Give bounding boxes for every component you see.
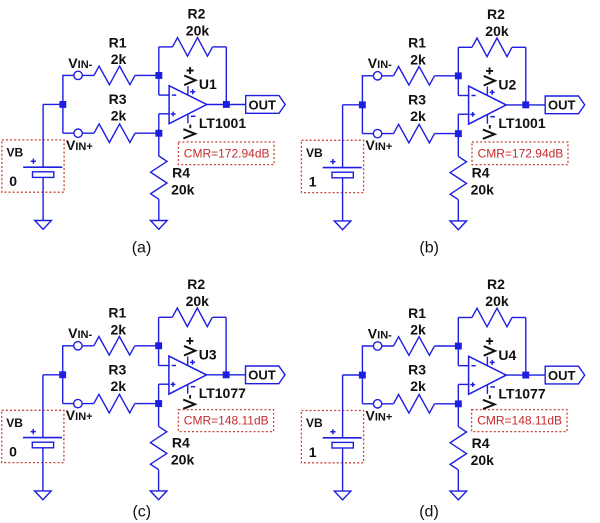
label R1 value 2k (U1): [109, 34, 127, 67]
svg-text:1: 1: [309, 444, 317, 460]
op-amp U2 V- pin label: [483, 125, 495, 139]
svg-text:VB: VB: [306, 146, 323, 160]
resistor R4 (U1): [151, 133, 167, 220]
wire: inverting node rail (U4): [457, 318, 459, 366]
wire: VIN- input top horizontal (U4): [362, 345, 393, 347]
label R3 value 2k (U4): [408, 362, 426, 395]
battery VB box (U2): [301, 140, 363, 192]
wire: feedback right vertical (U1): [225, 47, 227, 105]
wire: noninverting input stub (U2): [458, 113, 469, 115]
op-amp U4 noninverting input plus mark: [470, 382, 475, 387]
CMR result label (d): [472, 410, 567, 432]
resistor R3 (U3): [94, 394, 159, 413]
resistor R3 (U1): [94, 124, 159, 143]
svg-text:OUT: OUT: [548, 368, 576, 383]
svg-text:R2: R2: [188, 6, 206, 22]
wire: VIN- input top horizontal (U3): [63, 345, 94, 347]
wire: battery bottom (U3): [42, 448, 44, 491]
port VIN+ (U1): [74, 129, 82, 137]
junction: R3 / R4 node (U1): [155, 130, 162, 137]
wire: battery tap horizontal (U1): [43, 103, 63, 105]
junction: R3 / R4 node (U2): [455, 130, 462, 137]
ground: battery (U2): [334, 221, 351, 230]
ground: battery (U4): [334, 491, 351, 500]
resistor R2 feedback (U1): [159, 38, 227, 57]
svg-text:2k: 2k: [410, 378, 426, 394]
resistor R1 (U4): [394, 337, 459, 356]
op-amp U3 V+ power pin: [188, 357, 195, 366]
wire: VIN- input top horizontal (U2): [362, 75, 393, 77]
port VIN- (U3): [74, 342, 82, 350]
op-amp U1 V+ pin label: [184, 67, 195, 85]
label R1 value 2k (U4): [408, 305, 426, 338]
wire: feedback right vertical (U4): [525, 318, 527, 376]
battery VB symbol (U3): [23, 429, 62, 448]
wire: noninverting node rail (U4): [457, 384, 459, 403]
op-amp U1 V+ power pin: [188, 86, 195, 95]
op-amp U4 V- pin label: [483, 395, 495, 409]
output flag OUT (U3): [246, 366, 286, 384]
op-amp U2 V- power pin: [487, 114, 495, 124]
resistor R4 (U2): [450, 134, 466, 221]
svg-text:R1: R1: [109, 34, 127, 50]
svg-text:20k: 20k: [186, 23, 210, 39]
op-amp U4 V- power pin: [487, 384, 495, 394]
svg-text:2k: 2k: [410, 108, 426, 124]
junction: left rail / battery tap (U4): [359, 372, 366, 379]
resistor R1 (U1): [94, 66, 159, 85]
svg-text:U1: U1: [199, 76, 217, 92]
op-amp U1 inverting input minus mark: [172, 94, 176, 96]
junction: output node (U3): [223, 371, 230, 378]
svg-text:U2: U2: [498, 77, 516, 93]
port VIN- (U4): [373, 342, 381, 350]
battery VB symbol (U2): [323, 159, 362, 178]
svg-text:(d): (d): [419, 504, 439, 521]
svg-text:OUT: OUT: [548, 98, 576, 113]
svg-text:R1: R1: [408, 305, 426, 321]
label R1 value 2k (U2): [408, 35, 426, 68]
svg-text:R4: R4: [172, 435, 190, 451]
op-amp U1 triangle: [169, 86, 207, 124]
svg-text:R1: R1: [408, 35, 426, 51]
battery VB symbol (U1): [23, 159, 62, 178]
label R3 value 2k (U3): [108, 361, 126, 394]
label R2 value 20k (U3): [186, 276, 210, 309]
svg-text:LT1001: LT1001: [199, 115, 246, 131]
svg-text:CMR=172.94dB: CMR=172.94dB: [184, 146, 270, 160]
svg-text:U3: U3: [199, 347, 217, 363]
svg-text:R2: R2: [487, 6, 505, 22]
svg-text:VIN-: VIN-: [68, 55, 92, 71]
output flag OUT (U2): [545, 96, 585, 114]
svg-text:R3: R3: [109, 91, 127, 107]
resistor R2 feedback (U4): [458, 308, 526, 327]
svg-text:20k: 20k: [171, 181, 195, 197]
svg-text:20k: 20k: [485, 23, 509, 39]
svg-text:LT1077: LT1077: [498, 385, 545, 401]
svg-text:LT1001: LT1001: [498, 115, 545, 131]
op-amp U2 V+ pin label: [484, 67, 495, 85]
wire: battery tap horizontal (U3): [43, 374, 63, 376]
svg-text:CMR=148.11dB: CMR=148.11dB: [184, 414, 269, 428]
svg-text:U4: U4: [498, 347, 516, 363]
wire: inverting input stub (U4): [458, 365, 469, 367]
op-amp U2 triangle: [469, 86, 507, 124]
wire: noninverting node rail (U3): [158, 384, 160, 403]
svg-text:20k: 20k: [471, 182, 495, 198]
wire: battery top (U2): [342, 105, 344, 168]
svg-text:R3: R3: [108, 361, 126, 377]
wire: left rail vertical (U1): [62, 75, 64, 134]
wire: feedback right vertical (U2): [525, 47, 527, 105]
svg-text:2k: 2k: [410, 51, 426, 67]
port VIN- (U1): [74, 71, 82, 79]
CMR result label (b): [472, 142, 568, 165]
svg-text:20k: 20k: [485, 293, 509, 309]
ground: R4 (U3): [150, 491, 167, 500]
svg-text:2k: 2k: [111, 378, 127, 394]
junction: R1 / feedback node (U1): [155, 72, 162, 79]
svg-text:R2: R2: [487, 276, 505, 292]
wire: left rail vertical (U3): [62, 345, 64, 404]
svg-text:0: 0: [9, 173, 17, 189]
svg-text:(a): (a): [132, 239, 152, 256]
junction: left rail / battery tap (U3): [59, 371, 66, 378]
resistor R2 feedback (U3): [159, 308, 227, 327]
svg-text:VIN+: VIN+: [66, 407, 93, 423]
svg-text:VB: VB: [306, 416, 323, 430]
label R3 value 2k (U1): [109, 91, 127, 124]
wire: inverting node rail (U3): [158, 317, 160, 365]
wire: battery bottom (U4): [342, 448, 344, 491]
battery VB box (U1): [2, 140, 64, 192]
svg-text:VB: VB: [7, 146, 24, 160]
resistor R4 (U4): [450, 404, 466, 491]
output flag OUT (U1): [246, 96, 286, 114]
svg-text:R4: R4: [472, 165, 490, 181]
junction: output node (U4): [522, 372, 529, 379]
label R4 value 20k (U4): [471, 435, 495, 468]
wire: op-amp output (U2): [506, 104, 545, 106]
wire: op-amp output (U3): [207, 374, 246, 376]
svg-text:VIN+: VIN+: [366, 407, 393, 423]
svg-text:VIN-: VIN-: [368, 325, 392, 341]
svg-text:2k: 2k: [111, 51, 127, 67]
label R3 value 2k (U2): [408, 91, 426, 124]
wire: VIN+ input bottom horizontal (U1): [63, 132, 94, 134]
op-amp U2 noninverting input plus mark: [470, 112, 475, 117]
wire: VIN- input top horizontal (U1): [63, 74, 94, 76]
svg-text:VIN+: VIN+: [66, 137, 93, 153]
ground: battery (U3): [35, 491, 52, 500]
wire: battery tap horizontal (U2): [343, 104, 363, 106]
battery VB box (U3): [2, 410, 64, 462]
wire: op-amp output (U4): [506, 374, 545, 376]
svg-text:VIN-: VIN-: [68, 325, 92, 341]
op-amp U3 V- power pin: [188, 384, 196, 394]
svg-text:0: 0: [9, 444, 17, 460]
resistor R2 feedback (U2): [458, 38, 526, 57]
wire: inverting input stub (U2): [458, 95, 469, 97]
svg-text:R3: R3: [408, 362, 426, 378]
op-amp U3 triangle: [169, 356, 207, 394]
resistor R1 (U3): [94, 337, 159, 356]
svg-text:20k: 20k: [471, 452, 495, 468]
port VIN+ (U3): [74, 399, 82, 407]
svg-text:20k: 20k: [171, 452, 195, 468]
label R2 value 20k (U4): [485, 276, 509, 309]
op-amp U3 V- pin label: [183, 395, 195, 409]
op-amp U1 V- power pin: [188, 114, 196, 124]
wire: battery top (U3): [42, 375, 44, 438]
wire: VIN+ input bottom horizontal (U2): [362, 133, 393, 135]
wire: inverting node rail (U1): [158, 47, 160, 95]
wire: battery top (U1): [42, 104, 44, 167]
svg-text:VIN-: VIN-: [368, 55, 392, 71]
wire: noninverting node rail (U2): [457, 114, 459, 133]
label R4 value 20k (U1): [171, 164, 195, 197]
svg-text:R4: R4: [472, 435, 490, 451]
junction: R1 / feedback node (U4): [455, 343, 462, 350]
wire: left rail vertical (U4): [361, 345, 363, 404]
svg-text:R2: R2: [187, 276, 205, 292]
CMR result label (a): [178, 142, 274, 165]
op-amp U1 noninverting input plus mark: [171, 112, 176, 117]
svg-text:2k: 2k: [410, 322, 426, 338]
svg-text:2k: 2k: [111, 321, 127, 337]
resistor R3 (U2): [394, 124, 459, 143]
svg-text:OUT: OUT: [249, 97, 277, 112]
port VIN+ (U4): [373, 400, 381, 408]
op-amp U3 V+ pin label: [184, 337, 195, 355]
ground: R4 (U4): [450, 491, 467, 500]
svg-text:CMR=172.94dB: CMR=172.94dB: [478, 146, 564, 160]
op-amp U3 inverting input minus mark: [172, 365, 176, 367]
wire: feedback right vertical (U3): [225, 317, 227, 375]
wire: VIN+ input bottom horizontal (U3): [63, 403, 94, 405]
svg-text:CMR=148.11dB: CMR=148.11dB: [477, 414, 562, 428]
wire: noninverting input stub (U1): [159, 113, 170, 115]
junction: R1 / feedback node (U2): [455, 72, 462, 79]
output flag OUT (U4): [545, 366, 585, 384]
wire: noninverting input stub (U3): [159, 383, 170, 385]
junction: R3 / R4 node (U4): [455, 400, 462, 407]
resistor R1 (U2): [394, 67, 459, 86]
resistor R4 (U3): [150, 404, 166, 491]
junction: R3 / R4 node (U3): [155, 400, 162, 407]
svg-text:(c): (c): [132, 504, 151, 521]
CMR result label (c): [178, 410, 273, 432]
ground: R4 (U2): [450, 221, 467, 230]
op-amp U2 inverting input minus mark: [471, 95, 475, 97]
svg-text:VIN+: VIN+: [366, 137, 393, 153]
op-amp U4 inverting input minus mark: [471, 365, 475, 367]
svg-text:(b): (b): [419, 239, 439, 256]
junction: output node (U2): [522, 101, 529, 108]
label R2 value 20k (U2): [485, 6, 509, 39]
op-amp U2 V+ power pin: [487, 87, 494, 96]
label R2 value 20k (U1): [186, 6, 210, 39]
op-amp U4 V+ power pin: [487, 357, 494, 366]
svg-text:R1: R1: [108, 305, 126, 321]
wire: noninverting node rail (U1): [158, 114, 160, 133]
battery VB symbol (U4): [323, 429, 362, 448]
label R4 value 20k (U2): [471, 165, 495, 198]
svg-text:LT1077: LT1077: [199, 385, 246, 401]
wire: left rail vertical (U2): [361, 75, 363, 134]
wire: battery bottom (U1): [42, 177, 44, 220]
op-amp U3 noninverting input plus mark: [171, 382, 176, 387]
svg-text:OUT: OUT: [248, 368, 275, 383]
wire: battery tap horizontal (U4): [343, 374, 363, 376]
junction: left rail / battery tap (U2): [359, 101, 366, 108]
wire: VIN+ input bottom horizontal (U4): [362, 403, 393, 405]
op-amp U4 triangle: [469, 356, 507, 394]
resistor R3 (U4): [394, 395, 459, 414]
ground: R4 (U1): [151, 221, 168, 230]
battery VB box (U4): [301, 411, 363, 463]
junction: left rail / battery tap (U1): [59, 101, 66, 108]
wire: inverting input stub (U1): [159, 94, 170, 96]
svg-text:R4: R4: [172, 164, 190, 180]
svg-text:20k: 20k: [186, 293, 210, 309]
port VIN+ (U2): [373, 129, 381, 137]
svg-text:R3: R3: [408, 91, 426, 107]
label R1 value 2k (U3): [108, 305, 126, 338]
svg-text:VB: VB: [6, 416, 23, 430]
ground: battery (U1): [35, 221, 52, 230]
wire: inverting input stub (U3): [159, 365, 170, 367]
svg-text:1: 1: [309, 174, 317, 190]
wire: inverting node rail (U2): [457, 47, 459, 95]
wire: op-amp output (U1): [207, 104, 246, 106]
port VIN- (U2): [373, 72, 381, 80]
wire: battery bottom (U2): [342, 178, 344, 221]
wire: battery top (U4): [342, 375, 344, 438]
junction: output node (U1): [223, 101, 230, 108]
junction: R1 / feedback node (U3): [155, 342, 162, 349]
op-amp U1 V- pin label: [183, 125, 195, 139]
wire: noninverting input stub (U4): [458, 383, 469, 385]
op-amp U4 V+ pin label: [484, 338, 495, 356]
svg-text:2k: 2k: [111, 108, 127, 124]
label R4 value 20k (U3): [171, 435, 195, 468]
